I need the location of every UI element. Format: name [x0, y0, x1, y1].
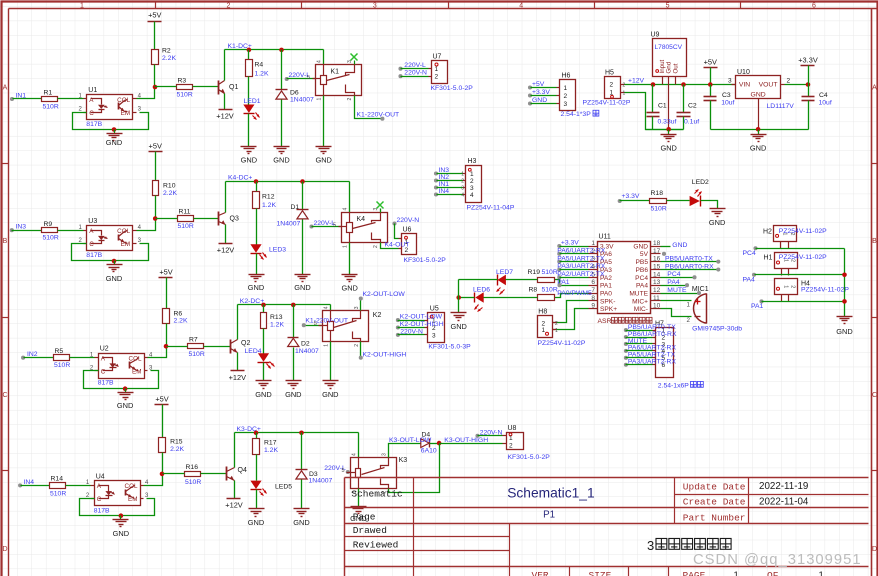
wire MIC+ (pin11): [661, 300, 692, 302]
svg-text:2: 2: [226, 3, 230, 10]
svg-text:PA1: PA1: [751, 303, 764, 310]
svg-text:2: 2: [610, 82, 614, 89]
node PA3/UART2-RX (U11 pin4): [557, 267, 561, 271]
svg-text:LED7: LED7: [496, 269, 513, 276]
svg-text:3: 3: [461, 186, 464, 192]
svg-text:GND: GND: [709, 218, 725, 227]
svg-text:U10: U10: [737, 69, 750, 76]
svg-text:817B: 817B: [86, 121, 102, 128]
wire R10 to junction: [155, 196, 157, 219]
svg-text:+3.3V: +3.3V: [561, 240, 579, 247]
svg-text:4: 4: [470, 192, 474, 199]
svg-text:EM: EM: [132, 369, 141, 376]
ground rail (C3/C4): [711, 129, 809, 131]
wire +5V to R15: [162, 405, 164, 438]
svg-text:K3-OUT-LOW: K3-OUT-LOW: [389, 437, 432, 444]
resistor R11: [178, 216, 194, 222]
svg-text:CSDN @qq_31309951: CSDN @qq_31309951: [693, 552, 862, 568]
transistor Q3: [218, 212, 220, 226]
svg-text:K2: K2: [373, 312, 382, 319]
node 220V-L (K4): [309, 224, 313, 228]
diode D3: [301, 433, 303, 470]
svg-text:D: D: [872, 546, 877, 553]
svg-text:VER: VER: [532, 570, 549, 576]
wire U9 Input pin: [662, 77, 664, 85]
svg-text:2: 2: [509, 442, 513, 449]
wire +12V rail: [625, 84, 736, 86]
node pin17: [662, 252, 666, 256]
power +12V (stage4): [227, 498, 241, 500]
svg-text:PZ254V-11-02P: PZ254V-11-02P: [779, 254, 827, 261]
svg-text:510R: 510R: [177, 92, 193, 99]
svg-text:B: B: [3, 238, 8, 245]
node K2-DC+ / wire rail: [238, 304, 331, 306]
wire R3 to Q1 base: [155, 86, 177, 88]
svg-text:MUTE: MUTE: [667, 287, 687, 294]
LED LED1: [243, 105, 254, 113]
node IN3: [10, 228, 14, 232]
svg-text:6A10: 6A10: [421, 448, 437, 455]
svg-text:2: 2: [373, 245, 379, 248]
wire K2-OUT-LOW to U5: [398, 320, 425, 322]
ground (U9): [668, 130, 670, 135]
svg-text:GND: GND: [660, 144, 676, 153]
svg-text:5: 5: [666, 3, 670, 10]
wire Q1 emitter to +12V: [224, 94, 226, 110]
node MUTE (H7): [624, 342, 628, 346]
node PA6/UART2-RX (U11 pin2): [557, 252, 561, 256]
wire 220V-L to K1 coil: [287, 78, 316, 80]
wire D1 to ground: [302, 220, 304, 275]
wire +5V to H6: [531, 87, 557, 89]
svg-text:PC4: PC4: [743, 250, 756, 257]
svg-text:R15: R15: [170, 438, 183, 445]
connector H4 PZ254V-11-02P: [775, 279, 798, 295]
svg-text:OF: OF: [767, 570, 779, 576]
svg-text:K1-220V-OUT: K1-220V-OUT: [305, 318, 348, 325]
svg-text:KF301-5.0-3P: KF301-5.0-3P: [428, 344, 471, 351]
node 220V-L (K1): [285, 77, 289, 81]
svg-text:L7805CV: L7805CV: [655, 44, 683, 51]
svg-text:1N4007: 1N4007: [277, 221, 301, 228]
junction R6/R7: [164, 344, 169, 349]
svg-text:H2: H2: [763, 229, 772, 236]
svg-text:Schematic1_1: Schematic1_1: [507, 485, 594, 500]
node K1-DC+ / wire rail: [225, 49, 324, 51]
node IN2 (H3): [434, 178, 438, 182]
wire 220V-L to U7 pin1: [401, 68, 429, 70]
svg-text:510R: 510R: [43, 104, 59, 111]
node 220V-L (U7): [398, 67, 402, 71]
junction C1: [651, 82, 656, 87]
svg-text:GND: GND: [672, 242, 687, 249]
wire 220V-N to U7 pin2: [401, 76, 429, 78]
svg-text:5V: 5V: [640, 251, 649, 258]
wire: [626, 357, 653, 359]
wire: [560, 261, 589, 263]
svg-text:R14: R14: [51, 476, 64, 483]
node K1-220V-OUT (K2 in): [302, 323, 306, 327]
svg-text:3: 3: [647, 538, 654, 553]
relay K2: [323, 311, 369, 342]
wire LED5 to ground: [256, 490, 258, 509]
junction rail/R17: [254, 431, 259, 436]
ground (D3): [294, 508, 310, 510]
connector H8 PZ254V-11-02P: [538, 316, 553, 338]
svg-text:K2-OUT-HIGH: K2-OUT-HIGH: [363, 352, 407, 359]
svg-text:2: 2: [790, 285, 796, 288]
ground (LED1): [241, 146, 257, 148]
svg-text:R19: R19: [528, 269, 541, 276]
wire LED7 left: [459, 279, 498, 281]
svg-text:SPK+: SPK+: [600, 306, 617, 313]
node PB5/UART0-TX (H7): [624, 328, 628, 332]
node K2-OUT-LOW (U5): [396, 318, 400, 322]
svg-text:Schematic: Schematic: [351, 489, 403, 500]
ground (K2): [323, 380, 339, 382]
wire: [560, 246, 589, 248]
wire U2 pin4 to junction: [148, 347, 167, 358]
node GND (U11 pin18): [661, 246, 671, 248]
wire: [626, 364, 653, 366]
svg-text:R7: R7: [189, 336, 198, 343]
svg-text:GND: GND: [750, 144, 766, 153]
svg-text:12: 12: [653, 287, 661, 294]
svg-text:3: 3: [564, 101, 568, 108]
node PA3/UART2-RX (H7): [624, 363, 628, 367]
ground (U1): [114, 130, 116, 134]
node K4-DC+ / wire rail: [226, 181, 350, 183]
svg-text:R11: R11: [179, 209, 191, 216]
svg-text:VOUT: VOUT: [759, 81, 778, 88]
wire K2 coil to ground: [330, 342, 332, 381]
svg-text:SIZE: SIZE: [589, 570, 612, 576]
wire IN4 to R14: [21, 485, 50, 487]
wire: [560, 253, 589, 255]
svg-text:PA0/PWM5: PA0/PWM5: [557, 290, 592, 297]
resistor R13: [261, 313, 267, 329]
wire R1 to U1 pin1: [58, 98, 84, 100]
capacitor C3: [710, 85, 712, 97]
wire IN1 to R1: [13, 98, 42, 100]
node PC4 (U11 pin14): [661, 277, 693, 279]
svg-text:EM: EM: [121, 110, 130, 117]
no-connect X (K4): [380, 209, 382, 213]
svg-text:817B: 817B: [94, 507, 110, 514]
relay K4: [342, 213, 388, 243]
svg-text:KF301-5.0-2P: KF301-5.0-2P: [508, 454, 551, 461]
wire K3 coil to ground: [358, 489, 360, 507]
svg-text:H5: H5: [605, 70, 614, 77]
wire K3 NO contact loop: [389, 444, 440, 493]
wire K1 coil to ground: [323, 96, 325, 147]
wire R11 to Q3 base: [156, 218, 178, 220]
svg-text:+12V: +12V: [216, 111, 234, 120]
node IN4 (H3): [434, 192, 438, 196]
wire K4 coil to ground: [349, 243, 351, 275]
wire LED4 to ground: [263, 363, 265, 381]
svg-text:U2: U2: [100, 346, 109, 353]
svg-text:2: 2: [687, 317, 691, 324]
svg-text:R3: R3: [178, 77, 187, 84]
ground (LED2): [710, 208, 726, 210]
svg-text:2022-11-19: 2022-11-19: [759, 481, 808, 492]
wire Q3 emitter to +12V: [225, 225, 227, 244]
wire: [626, 330, 653, 332]
transistor Q4: [226, 467, 228, 481]
svg-text:2: 2: [623, 82, 626, 88]
optocoupler U4: [95, 481, 141, 506]
svg-text:MIC1: MIC1: [692, 286, 709, 293]
wire SPK- to H8 pin2: [553, 301, 589, 323]
node 220V-N (U6): [392, 221, 396, 225]
wire rail to R17: [256, 433, 258, 439]
wire right GND bus: [844, 249, 846, 317]
node PA6/UART2-RX (H7): [624, 349, 628, 353]
wire R14 to U4 pin1: [66, 485, 91, 487]
node MUTE (U11 pin12): [661, 293, 698, 295]
junction rail/D2: [291, 303, 296, 308]
svg-text:4: 4: [343, 208, 349, 211]
svg-text:D2: D2: [301, 341, 310, 348]
wire Q2 emitter to +12V: [237, 353, 239, 371]
svg-text:510R: 510R: [43, 235, 59, 242]
wire H5 pin1 to ground rail: [625, 93, 684, 130]
svg-text:C: C: [872, 392, 877, 399]
svg-text:PZ254V-11-02P: PZ254V-11-02P: [538, 340, 586, 347]
svg-text:Create Date: Create Date: [683, 497, 746, 508]
svg-text:1: 1: [324, 344, 330, 347]
svg-text:PZ254V-11-02P: PZ254V-11-02P: [583, 100, 631, 107]
svg-text:510R: 510R: [542, 287, 558, 294]
wire +3.3V to H6: [531, 95, 557, 97]
ground (K4): [342, 274, 358, 276]
svg-text:MUTE: MUTE: [629, 290, 648, 297]
svg-text:LED4: LED4: [245, 348, 262, 355]
resistor R18: [650, 199, 667, 204]
wire Q4 emitter to +12V: [234, 481, 236, 499]
svg-text:R4: R4: [255, 62, 264, 69]
svg-text:13: 13: [653, 279, 661, 286]
node PA0/PWM5 (U11 pin7) / wire from R8: [555, 294, 589, 298]
wire LED7 to R19: [506, 279, 538, 281]
node PA5/UART2-TX (H7): [624, 356, 628, 360]
junction rail/R12: [254, 179, 259, 184]
svg-text:Out: Out: [673, 63, 680, 73]
svg-text:LED3: LED3: [269, 247, 286, 254]
svg-text:+3.3V: +3.3V: [622, 193, 640, 200]
svg-text:PZ254V-11-04P: PZ254V-11-04P: [467, 205, 515, 212]
svg-text:R2: R2: [162, 47, 171, 54]
node IN2: [21, 356, 25, 360]
wire Q2 collector to K2-DC+ rail: [237, 305, 239, 340]
microphone MIC1: [706, 294, 708, 324]
svg-text:U1: U1: [88, 87, 97, 94]
wire rail to D6: [281, 50, 283, 90]
power +12V (stage1): [219, 109, 233, 111]
wire SPK+ to H8 pin1: [553, 309, 589, 330]
svg-text:PA4: PA4: [743, 277, 756, 284]
diode D1: [302, 182, 304, 210]
node K2-OUT-LOW (K2): [360, 299, 362, 311]
resistor R15: [159, 438, 166, 453]
svg-text:U3: U3: [88, 218, 97, 225]
wire GND to H6: [531, 103, 557, 105]
LED LED2: [690, 196, 700, 206]
svg-text:C4: C4: [819, 92, 828, 99]
svg-text:10: 10: [653, 303, 661, 310]
svg-text:817B: 817B: [86, 252, 102, 259]
resistor R19: [538, 278, 555, 283]
svg-text:COL: COL: [117, 228, 130, 235]
wire R12 to LED3: [256, 209, 258, 245]
svg-text:510R: 510R: [50, 490, 66, 497]
regulator U9 L7805CV: [653, 39, 687, 77]
svg-text:510R: 510R: [542, 269, 558, 276]
svg-text:R6: R6: [174, 310, 183, 317]
node 220V-N (U5): [396, 333, 400, 337]
svg-text:817B: 817B: [98, 380, 114, 387]
wire rail to R12: [256, 182, 258, 192]
LED LED6: [475, 292, 483, 303]
ground (U3): [114, 261, 116, 265]
wire Q1 collector to K1-DC+ rail: [224, 50, 226, 81]
wire U2 ground loop: [84, 371, 159, 389]
svg-text:KF301-5.0-2P: KF301-5.0-2P: [404, 257, 447, 264]
svg-text:A: A: [3, 85, 8, 92]
junction rail/R13: [261, 303, 266, 308]
node K3-OUT-LOW / wire: [389, 444, 421, 458]
svg-text:R12: R12: [262, 194, 275, 201]
node K1-220V-OUT / wire: [355, 96, 383, 119]
wire U4 ground loop: [80, 499, 155, 516]
svg-text:R9: R9: [44, 221, 53, 228]
connector U5 KF301-5.0-3P: [428, 313, 445, 343]
svg-text:COL: COL: [129, 356, 142, 363]
relay K1: [316, 65, 362, 96]
optocoupler U2: [99, 354, 145, 379]
svg-text:VIN: VIN: [739, 81, 750, 88]
ground (D2): [286, 380, 302, 382]
svg-text:1: 1: [819, 570, 824, 576]
svg-text:GND: GND: [633, 243, 648, 250]
ground rail (C1/C2): [646, 129, 684, 131]
wire R6 to junction: [166, 324, 168, 347]
resistor R1: [42, 97, 58, 102]
svg-text:1: 1: [623, 90, 626, 96]
junction R2/R3: [153, 85, 158, 90]
ground (LED bus): [451, 312, 467, 314]
svg-text:Update Date: Update Date: [683, 481, 746, 492]
svg-text:LED1: LED1: [244, 98, 261, 105]
svg-text:1: 1: [734, 570, 739, 576]
wire: [626, 337, 653, 339]
svg-text:2.54-1*3P: 2.54-1*3P: [561, 111, 592, 118]
power +3.3V (U10): [801, 65, 815, 67]
resistor R14: [50, 483, 66, 489]
junction bus/PA4: [842, 273, 847, 278]
svg-text:+12V: +12V: [217, 246, 235, 255]
svg-text:GND: GND: [248, 283, 264, 292]
wire +3.3V to R18: [620, 200, 650, 202]
svg-text:PZ254V-11-02P: PZ254V-11-02P: [801, 286, 849, 293]
wire +5V to R10: [155, 152, 157, 181]
svg-text:2.2K: 2.2K: [174, 317, 188, 324]
optocoupler U3: [87, 226, 133, 251]
svg-text:14: 14: [653, 271, 661, 278]
svg-text:K4-DC+: K4-DC+: [228, 175, 252, 182]
resistor R7: [188, 344, 204, 349]
wire 220V-N to U5: [398, 334, 425, 336]
diode D6: [276, 89, 288, 91]
svg-text:1: 1: [783, 285, 789, 288]
svg-text:1N4007: 1N4007: [309, 478, 333, 485]
svg-text:K2-OUT-HIGH: K2-OUT-HIGH: [400, 321, 444, 328]
svg-text:K1: K1: [331, 69, 340, 76]
ground (U10): [758, 130, 760, 135]
node IN1: [10, 97, 14, 101]
wire U3 pin4 to junction: [137, 219, 156, 231]
LED LED3: [250, 244, 261, 252]
wire PA1 to bus: [762, 301, 845, 303]
svg-text:2: 2: [470, 178, 474, 185]
svg-text:2: 2: [564, 93, 568, 100]
junction rail/R4: [247, 48, 252, 53]
svg-text:GND: GND: [248, 518, 264, 527]
svg-text:COL: COL: [125, 483, 138, 490]
svg-text:3: 3: [382, 453, 388, 456]
svg-text:1: 1: [555, 328, 558, 334]
wire LED3 to ground: [256, 254, 258, 275]
svg-text:MIC+: MIC+: [632, 298, 648, 305]
svg-text:R17: R17: [264, 440, 277, 447]
node PA1 (U11 pin6) / wire from R19: [555, 280, 589, 286]
svg-text:2: 2: [461, 179, 464, 185]
svg-text:MIC-: MIC-: [634, 306, 648, 313]
svg-text:10uf: 10uf: [819, 100, 832, 107]
svg-text:R13: R13: [270, 314, 283, 321]
svg-text:4: 4: [351, 453, 357, 456]
wire +5V to R6: [166, 278, 168, 309]
junction C4: [806, 82, 811, 87]
transistor Q1: [218, 81, 220, 95]
resistor R10: [153, 181, 159, 196]
svg-text:+5V: +5V: [159, 268, 172, 277]
wire IN1 to H3: [437, 187, 463, 189]
svg-text:+12V: +12V: [628, 77, 645, 84]
svg-text:Part Number: Part Number: [683, 512, 746, 523]
svg-text:H6: H6: [562, 73, 571, 80]
svg-text:EM: EM: [128, 496, 137, 503]
svg-text:1: 1: [591, 240, 595, 247]
connector U6 KF301-5.0-2P: [402, 234, 417, 255]
power +12V (stage3): [231, 370, 245, 372]
resistor R4: [246, 60, 253, 77]
svg-text:6: 6: [591, 279, 595, 286]
svg-text:1.2K: 1.2K: [270, 322, 284, 329]
wire: [560, 277, 589, 279]
junction rail/D3: [299, 431, 304, 436]
junction LED bus: [456, 295, 461, 300]
wire U1 ground loop: [73, 113, 149, 130]
connector H7 2.54-1x6P: [656, 328, 674, 378]
svg-text:C3: C3: [722, 92, 731, 99]
svg-text:GND: GND: [341, 284, 357, 293]
wire PC4 to bus: [756, 248, 845, 250]
wire: [560, 269, 589, 271]
wire R4 to LED1: [248, 77, 250, 105]
svg-text:D1: D1: [291, 204, 300, 211]
